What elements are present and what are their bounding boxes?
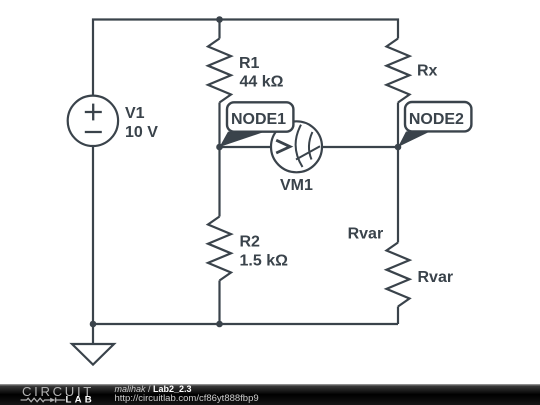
resistor Rx [387, 39, 410, 103]
ground [72, 344, 114, 365]
logo CircuitLab [21, 384, 95, 405]
svg-text:1.5 kΩ: 1.5 kΩ [240, 253, 289, 270]
svg-text:Rx: Rx [417, 62, 438, 79]
wire right vertical segments [397, 103, 399, 243]
voltmeter VM1 [271, 121, 322, 172]
resistor R2 [208, 217, 231, 281]
wire middle vertical segments [218, 20, 220, 39]
node NODE2 callout [398, 102, 471, 147]
wire left vertical lower [92, 146, 94, 344]
svg-text:LAB: LAB [66, 395, 96, 405]
svg-text:R2: R2 [240, 234, 261, 251]
svg-text:Rvar: Rvar [348, 226, 384, 243]
svg-text:10 V: 10 V [125, 124, 158, 141]
svg-text:Rvar: Rvar [418, 269, 454, 286]
svg-text:NODE2: NODE2 [409, 111, 464, 128]
svg-text:44 kΩ: 44 kΩ [240, 74, 284, 91]
svg-text:VM1: VM1 [280, 177, 313, 194]
resistor R1 [208, 39, 231, 103]
svg-text:R1: R1 [239, 55, 260, 72]
svg-text:NODE1: NODE1 [231, 111, 286, 128]
node NODE1 callout [220, 102, 294, 147]
svg-text:V1: V1 [125, 105, 145, 122]
wire top horizontal [93, 20, 398, 97]
svg-text:http://circuitlab.com/cf86yt88: http://circuitlab.com/cf86yt888fbp9 [115, 393, 259, 404]
wire voltmeter horizontal [220, 146, 272, 148]
footer bar [0, 384, 540, 405]
wire bottom horizontal [93, 323, 398, 325]
voltage source V1 [68, 96, 118, 146]
resistor Rvar [387, 243, 410, 307]
